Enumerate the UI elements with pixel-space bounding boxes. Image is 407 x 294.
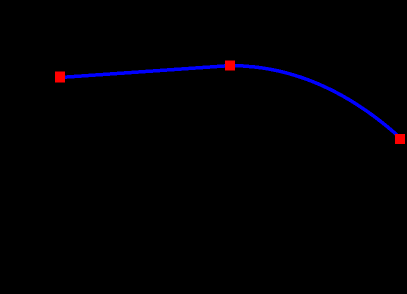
- marker point 1: [55, 72, 65, 83]
- marker point 2: [225, 61, 235, 71]
- marker point 3: [395, 134, 405, 144]
- data curve (blue): [60, 66, 400, 138]
